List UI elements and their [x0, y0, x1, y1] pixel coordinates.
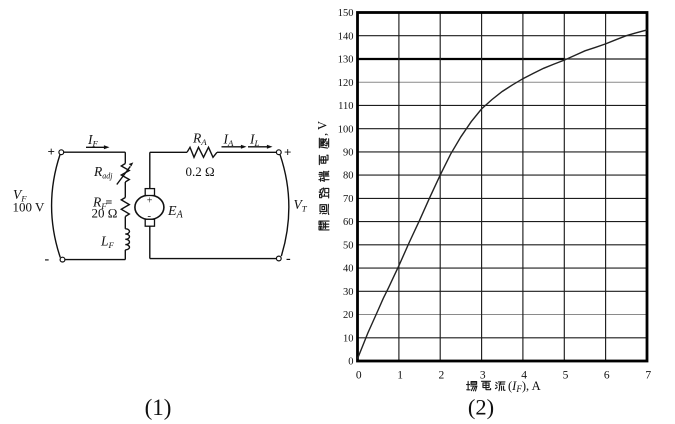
- svg-text:(IF), A: (IF), A: [508, 379, 541, 394]
- svg-text:140: 140: [338, 31, 354, 42]
- svg-text:7: 7: [645, 370, 651, 382]
- svg-text:70: 70: [343, 194, 354, 205]
- svg-text:3: 3: [480, 370, 486, 382]
- svg-text:120: 120: [338, 78, 354, 89]
- svg-text:50: 50: [343, 240, 354, 251]
- svg-text:-: -: [147, 210, 151, 222]
- svg-text:100: 100: [338, 124, 354, 135]
- svg-text:(1): (1): [145, 395, 172, 420]
- svg-text:130: 130: [338, 55, 354, 66]
- svg-text:0.2 Ω: 0.2 Ω: [186, 164, 215, 179]
- svg-text:+: +: [284, 145, 291, 160]
- svg-text:, V: , V: [316, 121, 330, 136]
- svg-text:80: 80: [343, 171, 354, 182]
- svg-text:10: 10: [343, 333, 354, 344]
- svg-text:+: +: [147, 196, 153, 207]
- svg-text:100 V: 100 V: [13, 200, 46, 215]
- svg-text:20 Ω: 20 Ω: [92, 206, 118, 221]
- svg-text:6: 6: [604, 370, 610, 382]
- svg-text:30: 30: [343, 287, 354, 298]
- svg-text:90: 90: [343, 148, 354, 159]
- svg-text:40: 40: [343, 264, 354, 275]
- svg-text:-: -: [286, 252, 291, 267]
- svg-text:(2): (2): [468, 395, 494, 420]
- svg-text:1: 1: [397, 370, 403, 382]
- svg-text:5: 5: [563, 370, 569, 382]
- svg-text:150: 150: [338, 8, 354, 19]
- svg-text:110: 110: [338, 101, 353, 112]
- svg-text:60: 60: [343, 217, 354, 228]
- svg-text:0: 0: [356, 370, 362, 382]
- svg-text:-: -: [45, 252, 50, 267]
- svg-text:20: 20: [343, 310, 354, 321]
- svg-text:2: 2: [439, 370, 445, 382]
- svg-text:0: 0: [348, 357, 353, 368]
- svg-text:+: +: [48, 144, 55, 159]
